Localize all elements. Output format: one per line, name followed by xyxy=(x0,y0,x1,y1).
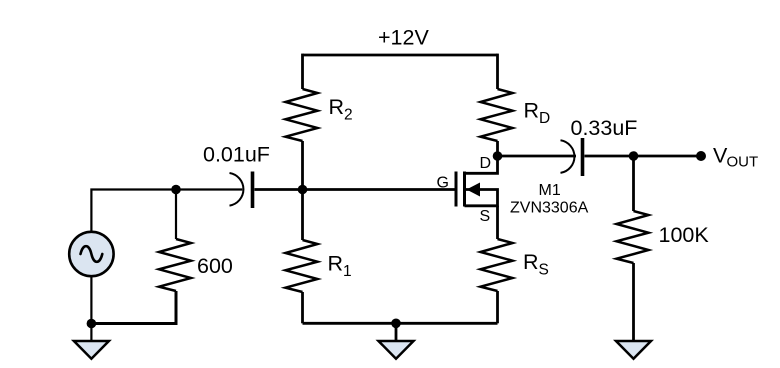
resistor 100K xyxy=(617,211,649,263)
resistor RD xyxy=(481,89,513,141)
node VOUT terminal xyxy=(696,151,706,161)
svg-text:0.01uF: 0.01uF xyxy=(203,143,270,167)
wire drain node to C2 xyxy=(498,155,577,158)
label RD xyxy=(524,99,551,128)
svg-text:ZVN3306A: ZVN3306A xyxy=(510,200,589,217)
ground right xyxy=(616,341,651,359)
capacitor C1 0.01uF xyxy=(230,172,253,209)
svg-text:R: R xyxy=(329,95,345,119)
wire output node to VOUT terminal xyxy=(634,155,702,158)
wire output node to 100K xyxy=(632,156,635,211)
wire input node to 600 xyxy=(175,190,177,240)
wire MOSFET source to RS xyxy=(496,206,499,239)
wire bottom rail xyxy=(303,322,498,325)
svg-text:R: R xyxy=(328,252,344,276)
svg-text:D: D xyxy=(480,155,492,172)
svg-text:+12V: +12V xyxy=(378,26,429,50)
wire C2 to output node xyxy=(585,155,634,158)
wire C1 to gate wire xyxy=(255,188,303,191)
svg-text:OUT: OUT xyxy=(727,154,759,171)
capacitor C2 0.33uF xyxy=(561,138,583,176)
resistor RS xyxy=(481,239,513,291)
label R1 xyxy=(328,252,352,281)
wire gate node to MOSFET gate xyxy=(303,188,456,191)
transistor M1 xyxy=(456,156,498,207)
wire input node to C1 xyxy=(176,188,242,190)
svg-text:D: D xyxy=(539,110,550,127)
node gate junction xyxy=(298,185,308,195)
svg-text:M1: M1 xyxy=(539,182,561,199)
label R2 xyxy=(329,95,353,124)
wire rail to R2 xyxy=(301,54,304,89)
node output junction xyxy=(629,151,639,161)
node drain D xyxy=(493,151,503,161)
wire ground stub left xyxy=(90,324,92,342)
resistor R2 xyxy=(286,89,318,141)
source AC V1 xyxy=(69,232,113,276)
wire R1 to bottom rail xyxy=(301,292,304,323)
wire R2 to gate node xyxy=(301,141,304,190)
node bottom rail junction xyxy=(391,319,401,329)
wire RS to bottom rail xyxy=(496,291,499,323)
svg-text:2: 2 xyxy=(344,107,353,124)
node source ground junction xyxy=(87,319,97,329)
resistor R1 xyxy=(286,240,318,292)
svg-text:S: S xyxy=(480,208,491,225)
wire 100K to ground xyxy=(632,263,635,341)
svg-text:0.33uF: 0.33uF xyxy=(571,116,638,140)
wire rail to ground stub xyxy=(395,323,398,341)
svg-text:R: R xyxy=(524,99,540,123)
wire source to input node xyxy=(91,190,176,232)
wire rail to RD xyxy=(496,54,499,89)
label RS xyxy=(523,250,549,279)
resistor 600 xyxy=(159,239,191,291)
svg-text:S: S xyxy=(539,262,549,279)
svg-text:600: 600 xyxy=(197,254,233,278)
wire 600 to source bottom xyxy=(91,291,176,324)
label VOUT xyxy=(713,144,758,171)
node input junction xyxy=(171,185,181,195)
wire RD to drain node xyxy=(496,141,499,156)
wire gate node to R1 xyxy=(301,190,304,241)
svg-text:R: R xyxy=(523,250,539,274)
ground left xyxy=(74,341,109,359)
svg-text:G: G xyxy=(437,175,449,192)
svg-text:1: 1 xyxy=(343,263,352,280)
svg-text:100K: 100K xyxy=(659,223,710,247)
wire source bottom xyxy=(90,276,92,323)
ground center xyxy=(379,341,414,359)
wire +12V top rail xyxy=(303,54,498,57)
